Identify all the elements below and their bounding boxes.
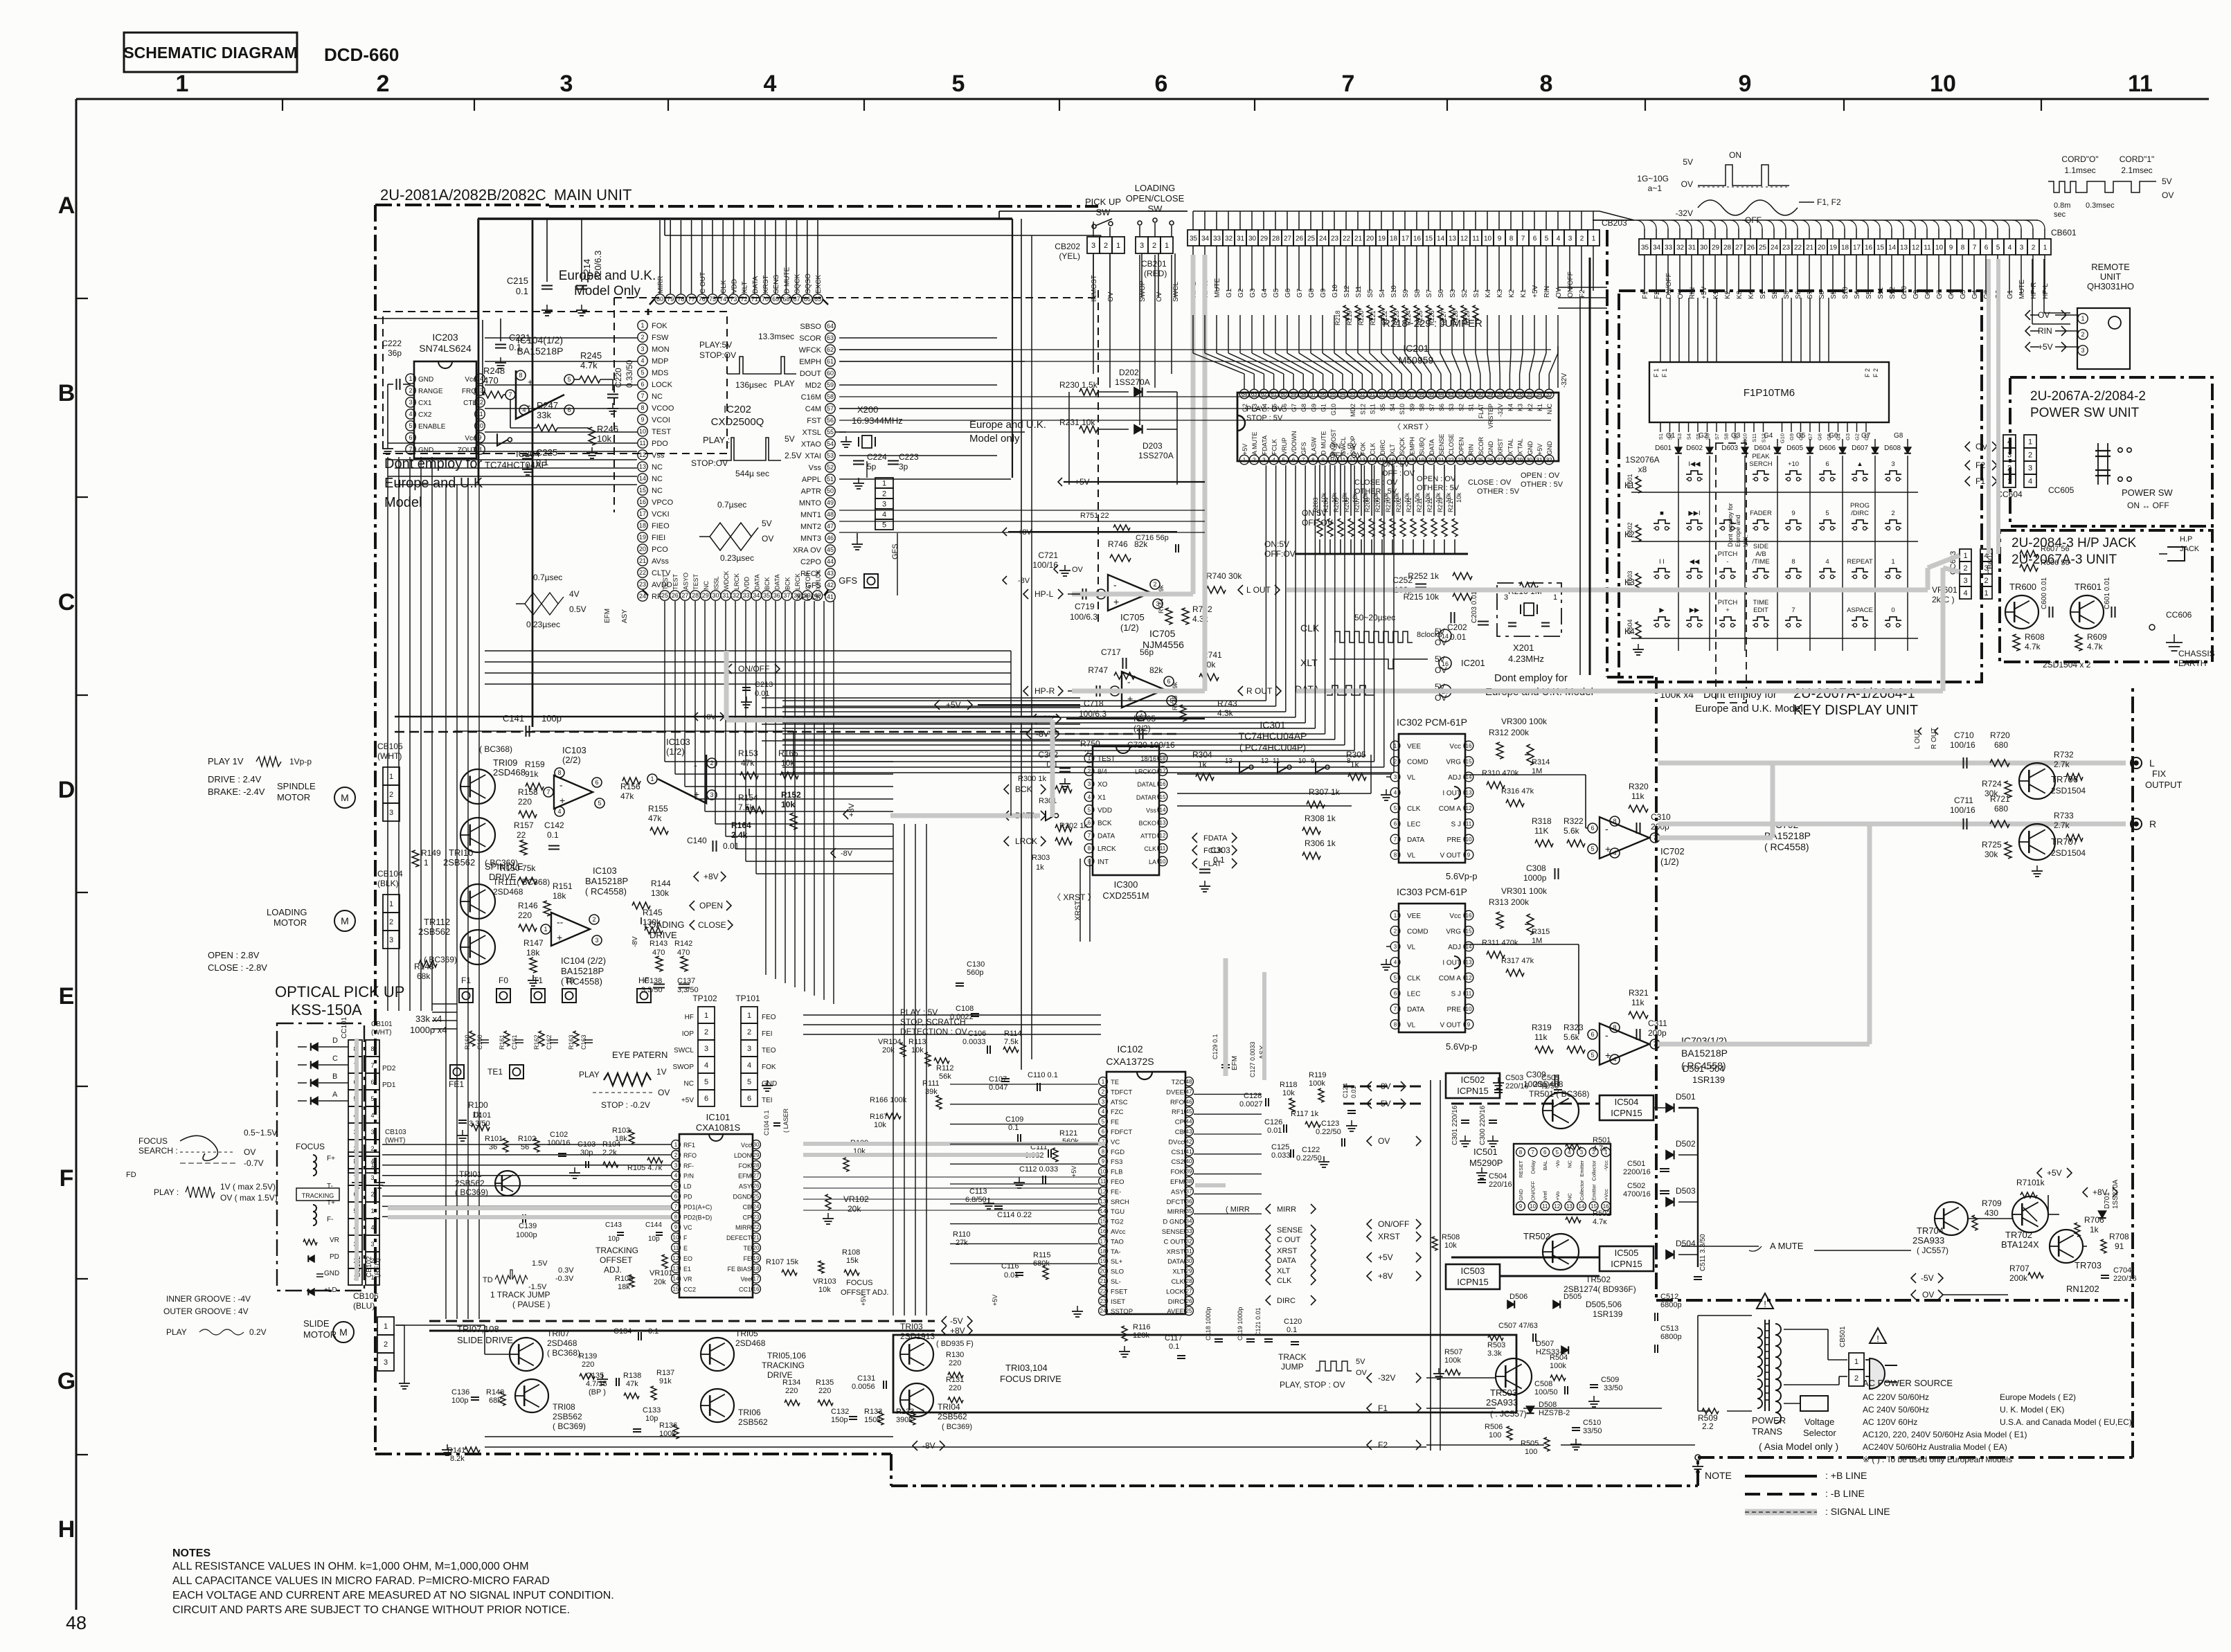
svg-text:4: 4 bbox=[704, 1061, 708, 1070]
svg-text:OV ( max 1.5V): OV ( max 1.5V) bbox=[220, 1193, 278, 1203]
svg-text:PD1(A+C): PD1(A+C) bbox=[683, 1203, 712, 1210]
diodes D505 D506 bbox=[1553, 1300, 1560, 1308]
svg-text:R306 1k: R306 1k bbox=[1305, 838, 1336, 848]
wire IC101 to IC102 runs bbox=[803, 1014, 1101, 1016]
svg-text:24: 24 bbox=[753, 1203, 760, 1210]
svg-text:M: M bbox=[341, 915, 349, 926]
svg-text:FOCUS: FOCUS bbox=[296, 1142, 325, 1151]
connector CB601 35pin row bbox=[1639, 239, 1651, 255]
svg-text:TR503: TR503 bbox=[1490, 1388, 1517, 1398]
svg-text:R102: R102 bbox=[518, 1135, 536, 1143]
svg-text:26: 26 bbox=[672, 592, 679, 599]
svg-text:9: 9 bbox=[1949, 244, 1953, 252]
svg-text:R315: R315 bbox=[1532, 928, 1550, 936]
svg-text:R305: R305 bbox=[1346, 750, 1366, 760]
svg-text:▶▶I: ▶▶I bbox=[1688, 510, 1700, 517]
svg-text:LRCK: LRCK bbox=[794, 573, 801, 590]
svg-text:1G~10G: 1G~10G bbox=[1637, 174, 1669, 183]
svg-text:ISET: ISET bbox=[1111, 1298, 1125, 1306]
svg-text:R246: R246 bbox=[597, 424, 618, 434]
svg-text:AVss: AVss bbox=[652, 557, 669, 566]
svg-text:680: 680 bbox=[1994, 740, 2008, 750]
svg-text:22: 22 bbox=[1794, 244, 1802, 252]
svg-text:30p: 30p bbox=[580, 1149, 593, 1157]
wire +8V left run bbox=[694, 712, 698, 721]
svg-text:A: A bbox=[332, 1090, 338, 1099]
dont employ dashed box around IC203 bbox=[383, 312, 727, 454]
svg-text:Dont employ for: Dont employ for bbox=[1494, 672, 1568, 684]
resistor R609 4.7k bbox=[2075, 634, 2082, 651]
svg-text:CC606: CC606 bbox=[2166, 610, 2192, 620]
svg-text:7.5k: 7.5k bbox=[1004, 1038, 1019, 1046]
svg-text:3: 3 bbox=[1091, 242, 1095, 250]
svg-text:Europe Models ( E2): Europe Models ( E2) bbox=[2000, 1392, 2076, 1402]
svg-text:12: 12 bbox=[1160, 833, 1166, 839]
svg-text:-8V: -8V bbox=[1378, 1081, 1391, 1091]
svg-text:9: 9 bbox=[1791, 510, 1795, 517]
svg-text:-: - bbox=[528, 400, 530, 411]
svg-text:31: 31 bbox=[1536, 457, 1543, 463]
svg-text:MOTOR: MOTOR bbox=[277, 792, 310, 802]
svg-text:VDOWN: VDOWN bbox=[1291, 431, 1298, 456]
svg-text:R210: R210 bbox=[1385, 497, 1392, 512]
svg-text:2: 2 bbox=[704, 1028, 708, 1036]
connector CC605 bbox=[2024, 435, 2036, 448]
svg-text:470: 470 bbox=[652, 949, 665, 957]
svg-text:R161: R161 bbox=[499, 1034, 505, 1050]
svg-text:TRI01: TRI01 bbox=[459, 1169, 482, 1179]
svg-text:C225: C225 bbox=[536, 447, 557, 458]
svg-text:23: 23 bbox=[1782, 244, 1791, 252]
svg-text:( BC369): ( BC369) bbox=[942, 1423, 972, 1431]
svg-text:72: 72 bbox=[741, 296, 748, 303]
svg-text:23: 23 bbox=[753, 1214, 760, 1220]
svg-text:G8: G8 bbox=[1300, 404, 1307, 412]
svg-text:(BLU): (BLU) bbox=[353, 1301, 375, 1311]
svg-text:NJM4556: NJM4556 bbox=[1143, 639, 1184, 650]
svg-text:MIRR: MIRR bbox=[1167, 1208, 1184, 1216]
svg-text:a~1: a~1 bbox=[1648, 183, 1663, 193]
svg-text:1: 1 bbox=[544, 926, 547, 933]
key button row3 col8 bbox=[1885, 568, 1901, 572]
svg-text:0.047: 0.047 bbox=[989, 1084, 1008, 1092]
svg-text:FCLK: FCLK bbox=[1203, 847, 1224, 855]
svg-text:R108: R108 bbox=[842, 1248, 860, 1257]
svg-text:C163: C163 bbox=[580, 1034, 587, 1050]
svg-text:IC705: IC705 bbox=[1120, 612, 1145, 622]
wire xrst bundle bbox=[1079, 859, 1081, 942]
svg-text:7: 7 bbox=[1394, 1006, 1397, 1012]
svg-text:8: 8 bbox=[370, 1045, 374, 1052]
svg-text:G9: G9 bbox=[1310, 404, 1317, 412]
svg-text:15: 15 bbox=[639, 487, 646, 494]
svg-text:R143: R143 bbox=[649, 940, 667, 948]
svg-text:SL+: SL+ bbox=[1111, 1258, 1123, 1266]
svg-text:C123: C123 bbox=[1321, 1120, 1339, 1128]
svg-text:19: 19 bbox=[1418, 457, 1424, 463]
AC plug symbol bbox=[1870, 1358, 1885, 1389]
svg-text:OFF: OFF bbox=[1745, 215, 1762, 225]
svg-text:XTAO: XTAO bbox=[801, 440, 822, 449]
svg-text:CB601: CB601 bbox=[2051, 228, 2077, 237]
svg-text:19: 19 bbox=[1829, 244, 1838, 252]
svg-text:25: 25 bbox=[1307, 235, 1316, 243]
svg-text:CLK: CLK bbox=[1172, 1278, 1185, 1286]
svg-text:IC702: IC702 bbox=[1660, 846, 1685, 856]
svg-text:C716 56p: C716 56p bbox=[1136, 534, 1169, 542]
resistor R746 82k bbox=[1110, 555, 1131, 562]
svg-text:2SD1504: 2SD1504 bbox=[2051, 786, 2086, 796]
transistor TR601 bbox=[2070, 595, 2104, 629]
resistor R745 3.9k bbox=[1179, 705, 1186, 721]
svg-text:4: 4 bbox=[370, 1112, 374, 1119]
svg-text:6: 6 bbox=[1088, 820, 1091, 826]
svg-text:ICPN15: ICPN15 bbox=[1611, 1259, 1642, 1269]
svg-text:F 1: F 1 bbox=[1661, 368, 1668, 377]
resistor R149 bbox=[412, 850, 419, 867]
svg-text:TZC: TZC bbox=[1172, 1079, 1185, 1086]
svg-text:1S2076A: 1S2076A bbox=[1625, 455, 1659, 465]
svg-text:( RC4558): ( RC4558) bbox=[585, 886, 627, 897]
svg-text:C131: C131 bbox=[857, 1374, 875, 1383]
svg-text:OV: OV bbox=[1975, 442, 1987, 451]
svg-text:48: 48 bbox=[1186, 1079, 1192, 1085]
svg-text:C719: C719 bbox=[1075, 602, 1095, 611]
capacitor C601 0.01 bbox=[2111, 607, 2113, 618]
svg-text:8: 8 bbox=[1102, 1149, 1105, 1155]
svg-text:45: 45 bbox=[1186, 1108, 1192, 1115]
svg-text:C: C bbox=[332, 1054, 338, 1063]
wire heavy vertical bus left of IC202 bbox=[478, 220, 480, 485]
svg-text:C OUT: C OUT bbox=[699, 272, 707, 294]
svg-text:5: 5 bbox=[1996, 244, 2000, 252]
svg-text:IC202: IC202 bbox=[724, 404, 751, 415]
svg-text:+8V: +8V bbox=[950, 1326, 965, 1336]
svg-text:XTSL: XTSL bbox=[802, 429, 821, 437]
svg-text:TRACKING: TRACKING bbox=[595, 1246, 638, 1255]
svg-text:ASYO: ASYO bbox=[682, 573, 689, 590]
svg-text:1: 1 bbox=[1604, 1149, 1608, 1156]
svg-text:BCK: BCK bbox=[1015, 784, 1032, 794]
svg-text:S7: S7 bbox=[1714, 433, 1720, 440]
svg-text:C704: C704 bbox=[2113, 1266, 2131, 1275]
IC300 input chevrons bbox=[1004, 784, 1009, 794]
svg-text:6: 6 bbox=[640, 381, 644, 388]
svg-text:F2: F2 bbox=[1975, 460, 1985, 470]
transistor TRI01 bbox=[495, 1171, 520, 1196]
svg-text:S5: S5 bbox=[1865, 290, 1873, 299]
wire horizontal 0V 8V long run bbox=[395, 716, 1059, 717]
svg-text:1: 1 bbox=[1165, 242, 1169, 250]
svg-text:8: 8 bbox=[557, 769, 561, 776]
svg-text:TRI03,104: TRI03,104 bbox=[1005, 1363, 1048, 1373]
svg-text:7: 7 bbox=[674, 1203, 678, 1210]
svg-text:PRE: PRE bbox=[1446, 1006, 1461, 1014]
svg-text:30: 30 bbox=[1526, 457, 1532, 463]
svg-text:SLO: SLO bbox=[1111, 1268, 1124, 1276]
svg-text:EO: EO bbox=[683, 1255, 692, 1262]
svg-text:8: 8 bbox=[1311, 457, 1315, 463]
svg-text:FIEO: FIEO bbox=[652, 522, 670, 530]
transistor TR706 bbox=[2019, 763, 2055, 799]
svg-text:2.7k: 2.7k bbox=[2054, 760, 2070, 769]
svg-text:34: 34 bbox=[1653, 244, 1661, 252]
svg-text:TRI09: TRI09 bbox=[493, 757, 517, 768]
svg-text:K3: K3 bbox=[1736, 290, 1744, 299]
svg-text:0.0027: 0.0027 bbox=[1239, 1100, 1263, 1108]
svg-text:S2: S2 bbox=[1461, 289, 1469, 298]
svg-text:544µ sec: 544µ sec bbox=[735, 469, 769, 478]
svg-text:4: 4 bbox=[1613, 850, 1616, 856]
svg-text:PD: PD bbox=[330, 1253, 339, 1261]
svg-text:CXD2500Q: CXD2500Q bbox=[711, 416, 764, 428]
svg-text:220/6.3: 220/6.3 bbox=[593, 251, 603, 280]
svg-text:C141: C141 bbox=[503, 713, 524, 724]
svg-text:+: + bbox=[694, 789, 699, 800]
svg-text:ON/OFF: ON/OFF bbox=[1567, 271, 1575, 298]
svg-text:SENS: SENS bbox=[773, 274, 780, 294]
svg-text:LEC: LEC bbox=[1407, 821, 1420, 829]
svg-text:G4: G4 bbox=[1971, 289, 1979, 299]
svg-text:SUBQ: SUBQ bbox=[1419, 437, 1426, 455]
svg-text:OFFSET: OFFSET bbox=[600, 1255, 633, 1265]
0V -8V rails to HP amp bbox=[1032, 714, 1037, 724]
svg-text:X1: X1 bbox=[1097, 794, 1106, 802]
svg-text:-5V: -5V bbox=[1921, 1273, 1934, 1283]
svg-text:C162: C162 bbox=[546, 1034, 553, 1050]
svg-text:COM A: COM A bbox=[1439, 975, 1462, 982]
svg-text:R720: R720 bbox=[1990, 730, 2010, 740]
svg-text:R310 470k: R310 470k bbox=[1482, 769, 1519, 778]
wires below CB202 bbox=[1093, 253, 1094, 298]
svg-text:5: 5 bbox=[1825, 510, 1829, 517]
power switch symbol bbox=[2097, 443, 2099, 485]
svg-text:0.33/50: 0.33/50 bbox=[625, 360, 634, 388]
svg-text:R167: R167 bbox=[870, 1113, 888, 1121]
svg-text:12: 12 bbox=[639, 451, 646, 458]
svg-text:39: 39 bbox=[1186, 1169, 1192, 1175]
svg-text:13: 13 bbox=[1466, 790, 1472, 796]
svg-text:GND: GND bbox=[418, 376, 433, 384]
svg-text:G10: G10 bbox=[1780, 433, 1786, 443]
capacitor C220 0.33/50 bbox=[607, 394, 618, 395]
svg-text:R505: R505 bbox=[1521, 1439, 1539, 1448]
svg-text:C140: C140 bbox=[687, 836, 707, 845]
svg-text:CHASSIS: CHASSIS bbox=[2178, 649, 2215, 658]
svg-text:※ ( ) : To be used only: ※ ( ) : To be used only European Models bbox=[1863, 1455, 2012, 1464]
resistor R742 4.3k bbox=[1182, 608, 1189, 625]
svg-text:74: 74 bbox=[719, 296, 726, 303]
svg-text:5: 5 bbox=[1088, 807, 1091, 813]
svg-text:2SD468: 2SD468 bbox=[1533, 1079, 1564, 1089]
svg-text:D202: D202 bbox=[1119, 368, 1139, 377]
svg-text:G3: G3 bbox=[1249, 288, 1257, 298]
svg-text:0.22/50: 0.22/50 bbox=[1316, 1128, 1341, 1136]
svg-text:19: 19 bbox=[753, 1255, 760, 1262]
svg-text:11: 11 bbox=[1472, 235, 1480, 243]
svg-text:26: 26 bbox=[1487, 457, 1494, 463]
svg-text:( PC74HCU04P): ( PC74HCU04P) bbox=[1239, 742, 1306, 753]
svg-text:I OUT: I OUT bbox=[1442, 960, 1461, 967]
svg-text:42: 42 bbox=[827, 582, 834, 589]
svg-text:BA15218P: BA15218P bbox=[561, 966, 604, 976]
svg-text:OV: OV bbox=[2162, 190, 2174, 200]
svg-text:EFM: EFM bbox=[1170, 1178, 1184, 1186]
svg-text:AVEE: AVEE bbox=[1167, 1308, 1184, 1316]
svg-text:IC303 PCM-61P: IC303 PCM-61P bbox=[1397, 886, 1467, 897]
svg-text:10k: 10k bbox=[597, 433, 611, 444]
svg-text:11: 11 bbox=[1466, 991, 1472, 997]
svg-text:5: 5 bbox=[598, 800, 601, 807]
svg-text:10: 10 bbox=[1930, 71, 1956, 97]
column tick marks bbox=[282, 99, 283, 111]
svg-text:C108: C108 bbox=[956, 1005, 974, 1013]
svg-text:0.01: 0.01 bbox=[1450, 632, 1467, 642]
signal bus grey RF pickup bbox=[803, 1142, 1105, 1146]
svg-text:R502: R502 bbox=[1593, 1210, 1611, 1218]
svg-text:C601 0.01: C601 0.01 bbox=[2104, 577, 2111, 609]
svg-text:C132: C132 bbox=[831, 1408, 849, 1416]
svg-text:R145: R145 bbox=[643, 908, 663, 917]
key button row2 col7 bbox=[1852, 520, 1868, 523]
svg-text:5: 5 bbox=[1394, 805, 1397, 811]
svg-text:LOADING: LOADING bbox=[267, 907, 307, 917]
inverter before IC300 DATA bbox=[1046, 811, 1055, 820]
svg-text:GND: GND bbox=[1527, 441, 1534, 456]
svg-text:2: 2 bbox=[1253, 457, 1256, 463]
key button row2 col8 bbox=[1885, 520, 1901, 523]
svg-text:D601: D601 bbox=[1655, 445, 1672, 452]
svg-text:OV: OV bbox=[1356, 1369, 1368, 1377]
svg-text:HP-L: HP-L bbox=[1034, 589, 1054, 599]
wire IC300 to IC302 runs bbox=[1177, 773, 1392, 775]
svg-text:STOP:OV: STOP:OV bbox=[691, 458, 728, 468]
svg-text:ASY: ASY bbox=[739, 1183, 751, 1190]
CB601 wires above arcs bbox=[1636, 220, 1645, 228]
svg-text:11k: 11k bbox=[1631, 791, 1645, 801]
svg-text:VPCO: VPCO bbox=[652, 499, 674, 507]
svg-text:DATA: DATA bbox=[1097, 833, 1115, 841]
svg-text:10k: 10k bbox=[911, 1046, 924, 1054]
svg-text:10: 10 bbox=[1466, 836, 1472, 843]
svg-text:LRCK: LRCK bbox=[1015, 836, 1037, 846]
svg-text:: -B LINE: : -B LINE bbox=[1825, 1488, 1865, 1499]
svg-text:1: 1 bbox=[674, 1142, 678, 1148]
svg-text:20: 20 bbox=[1428, 457, 1434, 463]
svg-text:FZC: FZC bbox=[1111, 1108, 1124, 1116]
svg-text:25: 25 bbox=[1186, 1308, 1192, 1314]
svg-text:26: 26 bbox=[753, 1183, 760, 1189]
svg-text:28: 28 bbox=[1272, 235, 1280, 243]
svg-text:I OUT: I OUT bbox=[1442, 790, 1461, 798]
svg-text:5.6Vp-p: 5.6Vp-p bbox=[1446, 871, 1478, 881]
svg-text:7: 7 bbox=[1394, 836, 1397, 843]
svg-text:FCLK: FCLK bbox=[1271, 439, 1278, 455]
svg-text:17: 17 bbox=[639, 510, 646, 517]
svg-text:( RC4558): ( RC4558) bbox=[1764, 841, 1809, 852]
svg-text:sec: sec bbox=[2054, 210, 2066, 219]
key button row3 col5 bbox=[1785, 568, 1802, 572]
svg-text:C OUT: C OUT bbox=[1277, 1236, 1301, 1244]
wire AC plug to CB501 bbox=[1865, 1359, 1870, 1361]
svg-text:( LASER: ( LASER bbox=[782, 1108, 789, 1133]
svg-text:13: 13 bbox=[1466, 960, 1472, 966]
svg-text:C102: C102 bbox=[550, 1131, 568, 1139]
svg-text:HF: HF bbox=[638, 976, 649, 985]
svg-text:RF1: RF1 bbox=[683, 1142, 695, 1149]
svg-text:C507 47/63: C507 47/63 bbox=[1498, 1322, 1538, 1330]
svg-text:6: 6 bbox=[1533, 235, 1537, 243]
svg-text:R320: R320 bbox=[1629, 782, 1649, 791]
svg-text:16: 16 bbox=[1865, 244, 1873, 252]
svg-text:TDFCT: TDFCT bbox=[1111, 1088, 1132, 1096]
svg-text:D507: D507 bbox=[1536, 1340, 1554, 1348]
svg-text:LRCK: LRCK bbox=[1097, 845, 1116, 853]
svg-text:VL: VL bbox=[1407, 1022, 1416, 1030]
svg-text:R154: R154 bbox=[738, 793, 758, 802]
svg-text:35: 35 bbox=[763, 592, 770, 599]
svg-text:Europe and U.K.: Europe and U.K. bbox=[559, 269, 656, 283]
svg-text:C121 0.01: C121 0.01 bbox=[1255, 1307, 1262, 1336]
svg-text:24: 24 bbox=[1319, 235, 1327, 243]
svg-text:3: 3 bbox=[1568, 235, 1573, 243]
IC504 ICPN15 box bbox=[1600, 1095, 1654, 1120]
svg-text:34: 34 bbox=[1201, 235, 1210, 243]
wire MNT link bbox=[866, 461, 868, 478]
svg-text:SQCK: SQCK bbox=[1399, 437, 1406, 455]
svg-text:APPL: APPL bbox=[802, 476, 821, 484]
wire horizontals center gap bbox=[762, 697, 1080, 699]
key button row3 col1 bbox=[1654, 568, 1670, 572]
svg-text:ADJ.: ADJ. bbox=[604, 1265, 622, 1275]
svg-text:RN1202: RN1202 bbox=[2066, 1284, 2099, 1294]
svg-text:R101: R101 bbox=[485, 1135, 503, 1143]
voltage selector bbox=[1800, 1396, 1828, 1411]
svg-text:15: 15 bbox=[1425, 235, 1433, 243]
svg-text:G4: G4 bbox=[1261, 288, 1269, 298]
svg-text:2SB562: 2SB562 bbox=[443, 857, 475, 868]
svg-text:22: 22 bbox=[1448, 457, 1454, 463]
svg-text:OPEN: OPEN bbox=[699, 901, 723, 910]
svg-text:EDIT: EDIT bbox=[1753, 607, 1768, 614]
svg-text:1Vp-p: 1Vp-p bbox=[289, 757, 312, 766]
svg-text:14: 14 bbox=[1437, 235, 1445, 243]
svg-text:FE-: FE- bbox=[1111, 1188, 1121, 1196]
svg-text:PLAY :: PLAY : bbox=[154, 1187, 179, 1197]
svg-text:130k: 130k bbox=[643, 917, 661, 927]
svg-text:C213: C213 bbox=[755, 681, 773, 689]
svg-text:R303: R303 bbox=[1032, 854, 1050, 862]
svg-text:67: 67 bbox=[794, 296, 800, 303]
IC201 chip body bbox=[1237, 393, 1559, 461]
svg-text:SENSE: SENSE bbox=[1162, 1228, 1184, 1236]
svg-text:+: + bbox=[559, 795, 565, 806]
svg-text:4: 4 bbox=[640, 357, 644, 364]
svg-text:D602: D602 bbox=[1686, 445, 1703, 452]
svg-text:PD2: PD2 bbox=[382, 1065, 396, 1072]
svg-text:CS2: CS2 bbox=[1172, 1158, 1184, 1166]
wire long horizontals IC202 right to IC201 area bbox=[839, 349, 1551, 350]
svg-text:R601: R601 bbox=[1627, 474, 1633, 489]
svg-text:FE BIAS: FE BIAS bbox=[727, 1266, 751, 1273]
wire FIP riser wires bbox=[1660, 298, 1661, 362]
svg-text:C143: C143 bbox=[605, 1221, 622, 1229]
svg-text:CORD"O": CORD"O" bbox=[2061, 154, 2098, 164]
svg-text:C511 3.3/50: C511 3.3/50 bbox=[1699, 1234, 1707, 1271]
svg-text:S12: S12 bbox=[1889, 287, 1897, 299]
svg-text:18k: 18k bbox=[526, 948, 540, 958]
svg-text:STOP : 5V: STOP : 5V bbox=[1246, 414, 1283, 422]
